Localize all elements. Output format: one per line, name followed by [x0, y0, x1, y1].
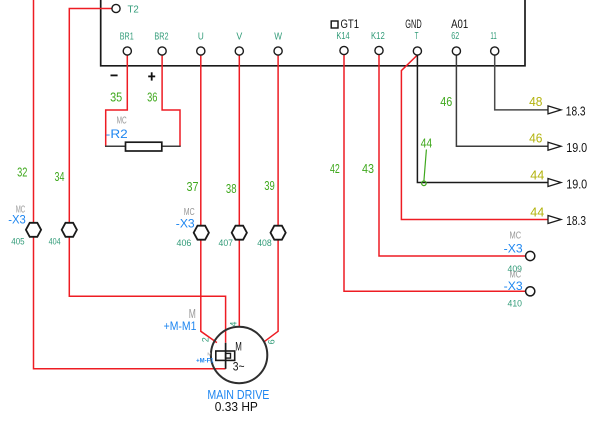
resistor R2 right stub wire	[162, 145, 181, 147]
svg-text:4: 4	[228, 322, 238, 327]
wire K12 to X3:409 (red)	[379, 54, 526, 256]
terminal W circle	[274, 47, 282, 55]
wire K14 to X3:410 (red)	[344, 54, 526, 291]
terminal T2 circle	[112, 4, 120, 12]
wire 62 to 19.0 arrow (black)	[456, 54, 548, 146]
device label GT1 square glyph	[331, 21, 338, 28]
svg-text:34: 34	[55, 169, 65, 184]
svg-text:44: 44	[530, 204, 544, 219]
svg-text:-X3: -X3	[504, 279, 523, 293]
svg-text:BR2: BR2	[154, 30, 168, 42]
svg-text:62: 62	[451, 30, 459, 42]
wire BR1 to R2 (red)	[106, 54, 128, 146]
svg-text:48: 48	[529, 94, 542, 109]
svg-text:BR1: BR1	[120, 30, 134, 42]
hexagon 408	[271, 226, 286, 240]
svg-text:-X3: -X3	[8, 213, 26, 227]
terminal U circle	[197, 47, 205, 55]
svg-text:MC: MC	[510, 229, 522, 241]
svg-text:A01: A01	[451, 17, 468, 31]
hexagon 406	[194, 226, 209, 240]
leader node circle	[422, 181, 427, 186]
wire GND T to 19.0 arrow (black)	[417, 54, 548, 183]
motor terminal box outer	[216, 351, 235, 360]
svg-text:GND: GND	[405, 17, 422, 31]
svg-text:410: 410	[508, 299, 523, 310]
device box outline	[101, 0, 525, 66]
svg-text:18.3: 18.3	[566, 213, 586, 228]
terminal X3:410 circle	[526, 287, 535, 296]
resistor R2 left stub wire	[105, 145, 126, 147]
wire BR2 to R2 (red)	[162, 54, 180, 146]
svg-text:35: 35	[110, 89, 122, 104]
motor M1 circle	[211, 327, 267, 383]
svg-text:19.0: 19.0	[566, 140, 587, 155]
wire U to motor (red)	[201, 54, 217, 343]
arrow to 19.0 (row2)	[548, 142, 561, 150]
svg-text:V: V	[236, 30, 242, 42]
terminal V circle	[235, 47, 243, 55]
svg-text:44: 44	[530, 168, 544, 183]
terminal 62 circle	[452, 47, 460, 55]
hexagon 405	[26, 223, 41, 237]
svg-text:408: 408	[257, 238, 272, 249]
svg-text:404: 404	[49, 237, 61, 248]
wire 11 to 18.3 arrow (dark gray)	[495, 54, 549, 110]
svg-text:GT1: GT1	[341, 17, 360, 31]
svg-text:W: W	[274, 30, 282, 42]
wire W to motor (red)	[264, 54, 278, 342]
svg-text:37: 37	[187, 179, 199, 194]
svg-text:MC: MC	[117, 115, 127, 127]
svg-text:M: M	[235, 340, 242, 353]
wire T2 to motor terminal (red)	[69, 9, 225, 343]
svg-text:2: 2	[201, 337, 211, 342]
svg-text:32: 32	[17, 165, 27, 180]
svg-text:19.0: 19.0	[566, 176, 587, 191]
hexagon 404	[62, 223, 77, 237]
svg-text:11: 11	[490, 30, 496, 42]
resistor R2 body	[126, 142, 162, 151]
terminal K14 circle	[340, 46, 348, 54]
motor terminal box inner	[226, 353, 231, 358]
svg-text:43: 43	[362, 161, 374, 176]
svg-text:6: 6	[267, 339, 277, 344]
svg-text:39: 39	[264, 178, 275, 193]
motor internal bar over box	[225, 351, 227, 360]
svg-text:K12: K12	[371, 30, 385, 42]
svg-text:42: 42	[330, 161, 340, 176]
svg-text:44: 44	[421, 135, 433, 150]
svg-text:3~: 3~	[233, 362, 245, 374]
svg-text:38: 38	[226, 181, 237, 196]
svg-text:46: 46	[529, 131, 542, 146]
svg-text:405: 405	[11, 237, 24, 248]
svg-text:+M-F1: +M-F1	[196, 359, 214, 365]
polarity minus	[111, 74, 118, 76]
wire 32/405 (red)	[34, 0, 226, 369]
terminal BR2 circle	[158, 47, 166, 55]
terminal 11 circle	[491, 47, 499, 55]
arrow to 18.3 (row4)	[548, 216, 561, 224]
svg-text:U: U	[198, 30, 204, 42]
svg-text:T2: T2	[128, 4, 139, 16]
polarity plus	[148, 75, 155, 77]
svg-text:K14: K14	[336, 30, 349, 42]
svg-text:406: 406	[177, 238, 192, 249]
svg-text:-X3: -X3	[504, 242, 523, 256]
svg-text:18.3: 18.3	[566, 104, 586, 119]
svg-text:36: 36	[147, 89, 157, 104]
arrow to 18.3 (row1)	[548, 106, 561, 114]
svg-text:+M-M1: +M-M1	[164, 319, 197, 333]
svg-text:46: 46	[440, 94, 452, 109]
svg-text:407: 407	[219, 238, 234, 249]
wire GND T branch to 18.3 arrow (red)	[401, 55, 548, 220]
svg-text:-X3: -X3	[176, 216, 195, 230]
terminal K12 circle	[375, 46, 383, 54]
hexagon 407	[232, 226, 247, 240]
svg-text:T: T	[415, 30, 419, 42]
leader line for 44	[424, 150, 427, 182]
terminal BR1 circle	[123, 47, 131, 55]
motor internal bar	[225, 343, 227, 369]
wire V to motor (red)	[238, 54, 240, 327]
svg-text:-R2: -R2	[106, 127, 128, 141]
arrow to 19.0 (row3)	[548, 179, 561, 187]
svg-text:0.33 HP: 0.33 HP	[215, 399, 258, 414]
terminal T circle	[413, 47, 421, 55]
terminal X3:409 circle	[526, 251, 535, 260]
svg-text:M: M	[207, 351, 211, 356]
